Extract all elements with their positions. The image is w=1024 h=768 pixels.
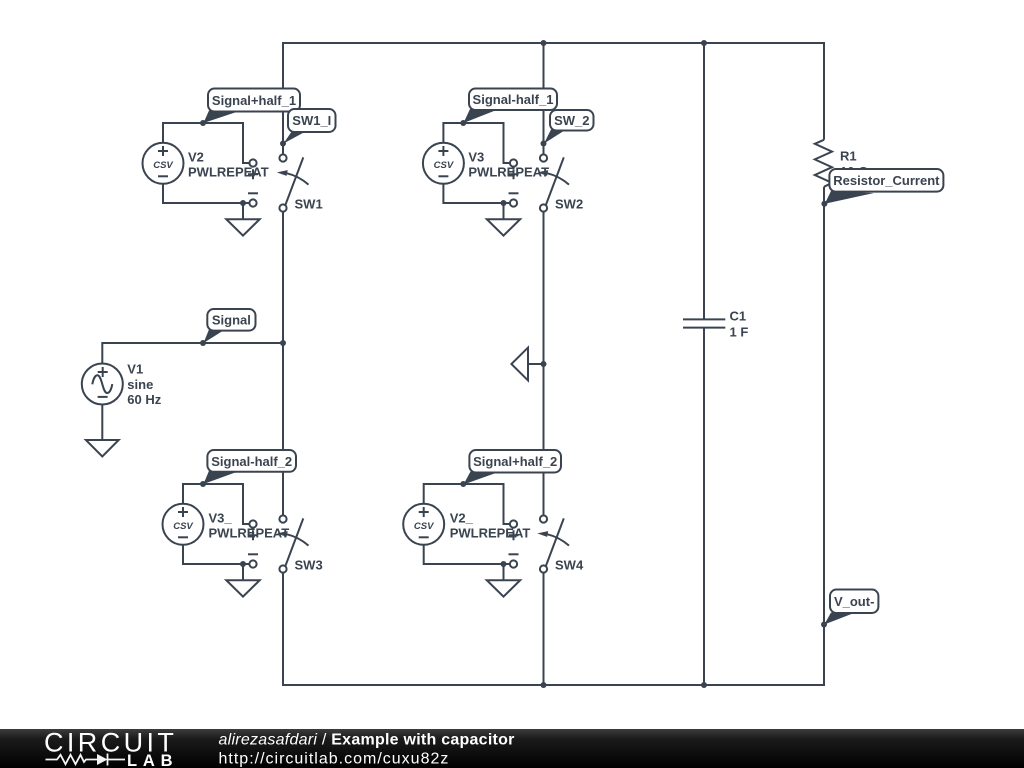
V2 plus sign — [158, 146, 168, 156]
V2_ plus sign — [419, 507, 429, 517]
wire: V2 top terminal to switch SW1 control plus — [163, 123, 250, 163]
resistor R1 zigzag — [815, 140, 832, 187]
switch SW1 control minus sign — [248, 192, 258, 194]
V1 plus sign — [98, 367, 108, 377]
flag V_out- box — [830, 590, 878, 614]
wire: V1 top to Signal rail — [102, 343, 283, 363]
switch SW4 blade — [546, 518, 564, 567]
svg-text:Signal-half_1: Signal-half_1 — [473, 92, 554, 107]
svg-text:Resistor_Current: Resistor_Current — [833, 173, 940, 188]
flag Signal-half_2 tail — [204, 471, 241, 484]
svg-text:CSV: CSV — [173, 521, 193, 532]
switch SW3 control minus sign — [248, 553, 258, 555]
svg-text:1 F: 1 F — [730, 325, 749, 340]
logo diode triangle — [97, 754, 108, 765]
V3_ minus sign — [178, 536, 188, 538]
voltage source V1 sine circle — [82, 364, 123, 405]
switch SW4 control plus sign — [509, 530, 519, 540]
flag Signal+half_1 box — [208, 89, 300, 112]
svg-text:C1: C1 — [730, 309, 747, 324]
wire: V1 bottom to ground — [101, 405, 103, 440]
ground below V3 — [503, 203, 505, 219]
flag Signal tail — [204, 330, 226, 344]
wire: left rail middle segment — [282, 212, 284, 516]
svg-text:SW_2: SW_2 — [554, 113, 589, 128]
svg-text:V2_: V2_ — [450, 511, 474, 526]
svg-text:PWLREPEAT: PWLREPEAT — [468, 165, 549, 180]
node junction V3_-minus/ground — [240, 561, 246, 567]
switch SW4 control minus terminal — [510, 560, 517, 567]
svg-text:Signal: Signal — [212, 313, 251, 328]
ground below V2_ — [503, 564, 505, 580]
switch SW2 control minus sign — [509, 192, 519, 194]
switch SW2 bottom terminal — [540, 204, 547, 211]
switch SW1 arrow head — [277, 170, 288, 176]
switch SW1 control plus sign — [248, 169, 258, 179]
node empty flag attach — [541, 361, 547, 367]
node C (Signal attach) — [200, 340, 206, 346]
svg-text:SW4: SW4 — [555, 558, 584, 573]
voltage source V3 (CSV) circle — [423, 143, 464, 184]
node R1 current measure — [821, 201, 827, 207]
node B (Signal-half_1 attach) — [460, 120, 466, 126]
node junction top-middle — [541, 40, 547, 46]
svg-text:LAB: LAB — [127, 752, 178, 768]
flag Signal-half_1 box — [469, 89, 557, 111]
switch SW2 control plus sign — [509, 169, 519, 179]
svg-text:http://circuitlab.com/cuxu82z: http://circuitlab.com/cuxu82z — [219, 750, 450, 767]
V1 sine wave — [92, 375, 112, 393]
wire: V2_ top terminal to switch SW4 control plus — [424, 484, 510, 524]
svg-text:V2: V2 — [188, 150, 204, 165]
switch SW1 blade — [285, 157, 303, 206]
svg-text:CSV: CSV — [153, 160, 173, 171]
wire: V3_ top terminal to switch SW3 control plus — [183, 484, 250, 524]
svg-text:R1: R1 — [840, 149, 857, 164]
svg-text:PWLREPEAT: PWLREPEAT — [450, 526, 531, 541]
switch SW3 control plus sign — [248, 530, 258, 540]
flag V_out- tail — [824, 613, 854, 625]
svg-text:CSV: CSV — [434, 160, 454, 171]
switch SW2 actuation arc — [547, 173, 569, 184]
voltage source V2 (CSV) circle — [143, 143, 184, 184]
capacitor C1 top plate — [683, 318, 725, 320]
svg-text:SW2: SW2 — [555, 197, 583, 212]
svg-text:sine: sine — [127, 377, 153, 392]
wire: middle rail lower segment — [543, 573, 545, 685]
node junction bottom-capacitor — [701, 682, 707, 688]
V3 minus sign — [438, 175, 448, 177]
switch SW4 top terminal — [540, 515, 547, 522]
wire: middle rail center segment — [543, 212, 545, 516]
svg-text:PWLREPEAT: PWLREPEAT — [209, 526, 290, 541]
node A (Signal+half_1 attach) — [200, 120, 206, 126]
wire: middle rail upper segment — [543, 43, 545, 154]
switch SW4 actuation arc — [547, 534, 569, 545]
logo diode bar and wire — [108, 754, 126, 766]
node junction bottom-middle — [541, 682, 547, 688]
switch SW3 arrow head — [277, 531, 288, 537]
node SW1_I attach — [280, 141, 286, 147]
flag Signal+half_1 tail — [204, 111, 242, 124]
svg-text:V_out-: V_out- — [834, 594, 874, 609]
wire: V3 bottom terminal to ground and SW2 control minus — [443, 184, 510, 203]
node junction top-capacitor — [701, 40, 707, 46]
voltage source V2_ (CSV) circle — [403, 504, 444, 545]
switch SW1 control minus terminal — [249, 199, 256, 206]
node junction V2-minus/ground — [240, 200, 246, 206]
switch SW2 arrow head — [537, 170, 548, 176]
svg-text:SW1_I: SW1_I — [292, 113, 331, 128]
node D (Signal-half_2 attach) — [200, 481, 206, 487]
flag Signal-half_2 box — [207, 450, 296, 472]
switch SW3 bottom terminal — [279, 565, 286, 572]
svg-text:CSV: CSV — [414, 521, 434, 532]
V2 minus sign — [158, 175, 168, 177]
ground below V1 — [86, 440, 119, 456]
node junction V3-minus/ground — [501, 200, 507, 206]
node E (Signal+half_2 attach) — [460, 481, 466, 487]
svg-text:V3_: V3_ — [209, 511, 233, 526]
wire: capacitor branch upper — [703, 43, 705, 319]
switch SW1 bottom terminal — [279, 204, 286, 211]
node SW_2 attach — [541, 141, 547, 147]
V1 minus sign — [98, 396, 108, 398]
flag Resistor_Current box — [829, 169, 943, 192]
switch SW2 top terminal — [540, 154, 547, 161]
switch SW4 arrow head — [537, 531, 548, 537]
ground below V2 — [242, 203, 244, 219]
flag Signal box — [207, 309, 255, 331]
flag Signal+half_2 box — [469, 450, 561, 473]
switch SW1 control plus terminal — [249, 159, 256, 166]
ground below V3_ — [242, 564, 244, 580]
V3 plus sign — [438, 146, 448, 156]
switch SW3 blade — [285, 518, 303, 567]
switch SW4 control minus sign — [509, 553, 519, 555]
wire: bottom rail + left rail lower + right rail lower — [283, 187, 824, 685]
capacitor C1 bottom plate — [683, 327, 725, 329]
node V_out- attach — [821, 622, 827, 628]
svg-text:Signal+half_2: Signal+half_2 — [473, 454, 557, 469]
wire: capacitor branch lower — [703, 328, 705, 685]
svg-text:alirezasafdari / Example with: alirezasafdari / Example with capacitor — [219, 732, 515, 749]
wire: V2 bottom terminal to ground and SW1 control minus — [163, 184, 250, 203]
svg-text:V3: V3 — [468, 150, 484, 165]
svg-text:60 Hz: 60 Hz — [127, 392, 161, 407]
switch SW2 blade — [546, 157, 564, 206]
wire: V3 top terminal to switch SW2 control plus — [443, 123, 510, 163]
svg-text:SW3: SW3 — [295, 558, 323, 573]
flag SW_2 box — [550, 110, 594, 131]
empty net flag stub wire — [528, 363, 544, 365]
switch SW2 control plus terminal — [510, 159, 517, 166]
switch SW4 control plus terminal — [510, 520, 517, 527]
wire: top rail + left rail upper + right rail upper — [283, 43, 824, 154]
switch SW3 control minus terminal — [249, 560, 256, 567]
flag SW1_I box — [288, 109, 336, 132]
node junction Signal/left rail — [280, 340, 286, 346]
flag SW1_I tail — [284, 131, 307, 144]
svg-text:Signal-half_2: Signal-half_2 — [211, 454, 292, 469]
switch SW4 bottom terminal — [540, 565, 547, 572]
svg-text:V1: V1 — [127, 362, 143, 377]
switch SW1 actuation arc — [287, 173, 309, 184]
switch SW1 top terminal — [279, 154, 286, 161]
V2_ minus sign — [419, 536, 429, 538]
switch SW3 control plus terminal — [249, 520, 256, 527]
flag Signal-half_1 tail — [464, 109, 500, 123]
voltage source V3_ (CSV) circle — [163, 504, 204, 545]
wire: V3_ bottom terminal to ground and SW3 control minus — [183, 545, 250, 564]
svg-text:PWLREPEAT: PWLREPEAT — [188, 165, 269, 180]
flag SW_2 tail — [544, 130, 566, 144]
node junction V2_-minus/ground — [501, 561, 507, 567]
empty net flag arrow outline — [511, 348, 528, 381]
svg-text:Signal+half_1: Signal+half_1 — [212, 93, 296, 108]
flag Resistor_Current tail — [825, 191, 874, 204]
switch SW3 top terminal — [279, 515, 286, 522]
switch SW2 control minus terminal — [510, 199, 517, 206]
flag Signal+half_2 tail — [464, 472, 501, 485]
logo circuit line with resistor — [46, 755, 98, 764]
V3_ plus sign — [178, 507, 188, 517]
wire: V2_ bottom terminal to ground and SW4 control minus — [424, 545, 510, 564]
switch SW3 actuation arc — [287, 534, 309, 545]
svg-text:SW1: SW1 — [295, 197, 323, 212]
